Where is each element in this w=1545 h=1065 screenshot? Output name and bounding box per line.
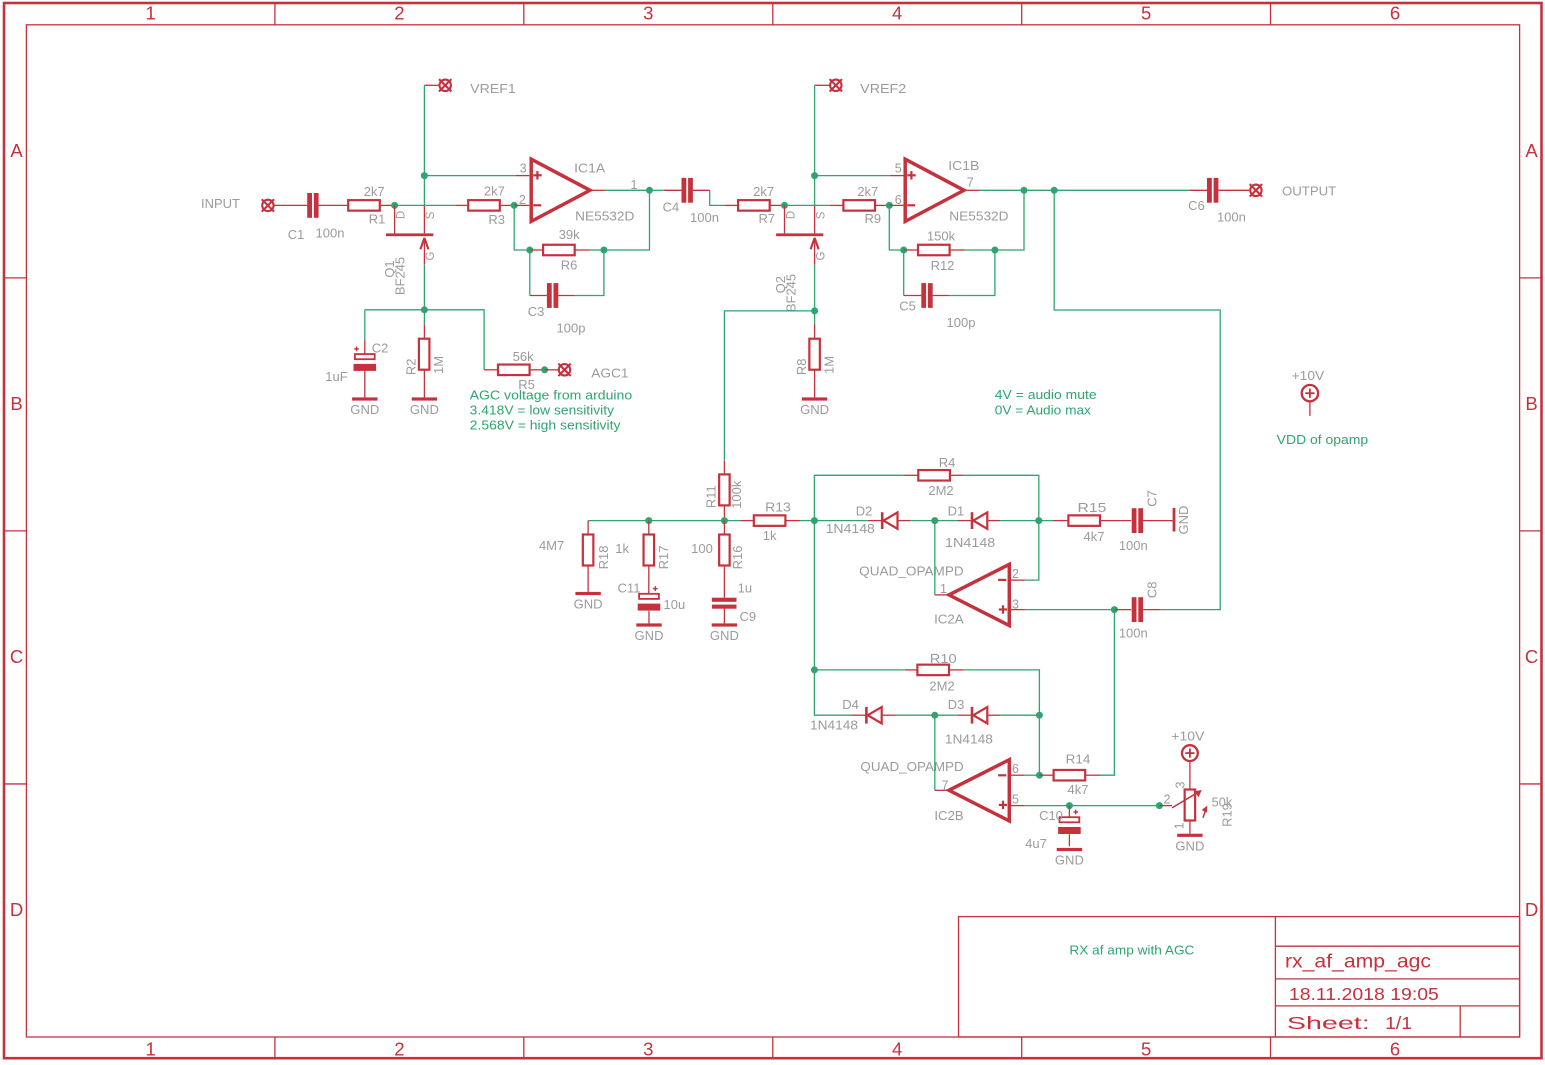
diode D4 1N4148 — [852, 714, 865, 716]
ground GND C10 — [1057, 848, 1082, 851]
svg-text:VDD of opamp: VDD of opamp — [1277, 432, 1369, 447]
wire down to R10 loop — [813, 521, 815, 670]
transistor Q1 BF245 — [386, 233, 433, 236]
svg-text:2: 2 — [1164, 793, 1171, 807]
svg-text:C10: C10 — [1039, 808, 1063, 823]
wire R19 pin1 to GND — [1189, 820, 1191, 833]
resistor R14 — [1039, 774, 1054, 776]
ground GND C11 — [636, 623, 661, 626]
svg-text:R9: R9 — [864, 211, 881, 226]
resistor R2 — [423, 310, 425, 325]
wire — [274, 204, 307, 206]
wire C3 loop right — [575, 250, 604, 296]
svg-text:GND: GND — [635, 628, 664, 643]
resistor R11 — [723, 461, 725, 475]
svg-text:VREF1: VREF1 — [470, 81, 516, 96]
svg-text:2k7: 2k7 — [484, 184, 505, 199]
svg-text:0V = Audio max: 0V = Audio max — [995, 403, 1092, 418]
frame row ticks left — [4, 277, 26, 279]
svg-text:INPUT: INPUT — [201, 196, 240, 211]
resistor R1 — [348, 200, 380, 211]
pin OUTPUT — [1250, 184, 1262, 196]
svg-text:2k7: 2k7 — [753, 184, 774, 199]
capacitor C1 — [307, 193, 312, 218]
svg-text:R15: R15 — [1078, 500, 1107, 515]
pin AGC1 — [558, 364, 570, 376]
svg-text:4M7: 4M7 — [539, 538, 564, 553]
wire — [395, 204, 456, 206]
svg-text:C4: C4 — [663, 200, 680, 215]
wire IC1A out to C4 — [650, 189, 665, 191]
svg-text:2M2: 2M2 — [929, 678, 954, 693]
svg-text:10u: 10u — [664, 597, 686, 612]
svg-text:D: D — [395, 211, 407, 219]
svg-text:C: C — [1525, 646, 1538, 667]
svg-text:R1: R1 — [369, 212, 386, 227]
capacitor C11 — [639, 594, 659, 599]
svg-text:GND: GND — [1175, 838, 1204, 853]
svg-text:7: 7 — [967, 175, 974, 189]
svg-text:4: 4 — [892, 1039, 902, 1060]
resistor R6 — [530, 249, 543, 251]
svg-text:S: S — [815, 211, 827, 219]
node IC1B out junction 2 — [1051, 187, 1058, 194]
svg-text:GND: GND — [800, 402, 829, 417]
svg-text:IC2B: IC2B — [934, 808, 963, 823]
pin INPUT — [262, 199, 274, 211]
node D1 right junction — [1035, 517, 1042, 524]
resistor R3 — [455, 204, 468, 206]
wire D2 row — [814, 520, 868, 522]
svg-text:D4: D4 — [842, 697, 859, 712]
svg-text:IC1A: IC1A — [574, 160, 605, 175]
svg-text:D: D — [1525, 899, 1538, 920]
ground GND R19 — [1177, 834, 1202, 837]
svg-text:+10V: +10V — [1171, 729, 1204, 744]
node IC1B out junction 1 — [1021, 187, 1028, 194]
wire Q2 gate node to R11 — [724, 311, 814, 461]
node Q1 gate node — [421, 306, 428, 313]
wire IC1B feedback — [995, 190, 1024, 250]
svg-text:39k: 39k — [559, 227, 580, 242]
svg-text:D: D — [10, 899, 23, 920]
wire VREF1 to Q1 source — [423, 176, 425, 206]
supply pin VREF1 — [439, 79, 451, 91]
wire — [785, 204, 830, 206]
svg-text:C9: C9 — [739, 609, 756, 624]
svg-text:R3: R3 — [488, 212, 505, 227]
node D2-D1 junction — [931, 517, 938, 524]
svg-text:3: 3 — [643, 1039, 653, 1060]
svg-text:1: 1 — [1173, 822, 1187, 829]
svg-text:D2: D2 — [856, 503, 873, 518]
svg-text:GND: GND — [410, 402, 439, 417]
svg-text:rx_af_amp_agc: rx_af_amp_agc — [1285, 952, 1431, 973]
svg-text:100p: 100p — [947, 315, 976, 330]
op-amp IC1A — [531, 159, 590, 221]
wire down to C2 — [364, 310, 366, 340]
svg-text:GND: GND — [1055, 853, 1084, 868]
svg-text:1N4148: 1N4148 — [945, 535, 995, 550]
svg-text:6: 6 — [1390, 1039, 1400, 1060]
wire Q1 gate down — [423, 265, 425, 310]
title block frame — [959, 917, 1520, 1037]
node pin6 junction — [886, 202, 893, 209]
svg-text:AGC voltage from arduino: AGC voltage from arduino — [470, 387, 633, 402]
svg-text:R7: R7 — [758, 211, 775, 226]
wire C5 loop left — [903, 250, 905, 296]
svg-text:C1: C1 — [288, 227, 305, 242]
svg-text:1/1: 1/1 — [1385, 1013, 1412, 1033]
svg-text:3: 3 — [1173, 781, 1187, 788]
resistor R10 — [814, 669, 905, 671]
svg-text:GND: GND — [1176, 506, 1191, 535]
resistor R12 — [904, 249, 919, 251]
svg-text:2k7: 2k7 — [857, 184, 878, 199]
svg-text:D3: D3 — [948, 697, 965, 712]
capacitor C4 — [664, 189, 682, 191]
svg-text:5: 5 — [1141, 3, 1151, 24]
svg-text:2: 2 — [1012, 567, 1019, 581]
svg-text:R11: R11 — [703, 485, 718, 508]
svg-text:2M2: 2M2 — [928, 483, 953, 498]
svg-text:100n: 100n — [1119, 538, 1148, 553]
node pin2 junction — [511, 202, 518, 209]
svg-text:1N4148: 1N4148 — [826, 521, 875, 536]
svg-text:56k: 56k — [513, 349, 534, 364]
svg-text:3.418V = low sensitivity: 3.418V = low sensitivity — [470, 402, 615, 417]
supply +10V R19 — [1182, 745, 1198, 761]
svg-text:2: 2 — [394, 3, 404, 24]
svg-text:1M: 1M — [821, 356, 836, 374]
node C8 left junction — [1111, 606, 1118, 613]
svg-text:RX af amp with AGC: RX af amp with AGC — [1069, 944, 1194, 958]
svg-text:1: 1 — [145, 3, 155, 24]
svg-text:100n: 100n — [316, 225, 345, 240]
svg-text:C5: C5 — [899, 299, 916, 314]
svg-text:R13: R13 — [765, 500, 791, 515]
svg-text:C: C — [10, 646, 23, 667]
node R13 right junction — [811, 517, 818, 524]
ground GND R18 — [575, 592, 600, 595]
ground GND C2 — [352, 397, 377, 400]
svg-text:B: B — [1525, 393, 1537, 414]
wire mid bus — [588, 520, 740, 522]
node R10 left junction — [811, 666, 818, 673]
svg-text:100: 100 — [691, 541, 713, 556]
ground GND C7 rotated — [1173, 508, 1176, 532]
resistor R15 — [1039, 520, 1053, 522]
capacitor C3 — [530, 295, 547, 297]
svg-text:4k7: 4k7 — [1068, 782, 1089, 797]
wire C8 node down to R14 — [1100, 610, 1114, 776]
svg-text:2: 2 — [519, 193, 526, 207]
svg-text:R19: R19 — [1220, 803, 1235, 827]
svg-text:GND: GND — [574, 597, 603, 612]
svg-text:5: 5 — [1012, 793, 1019, 807]
capacitor C8 — [1114, 609, 1131, 611]
svg-text:2: 2 — [394, 1039, 404, 1060]
svg-text:4u7: 4u7 — [1025, 836, 1047, 851]
svg-text:VREF2: VREF2 — [860, 81, 906, 96]
svg-text:2.568V = high sensitivity: 2.568V = high sensitivity — [470, 417, 621, 432]
svg-text:C8: C8 — [1145, 581, 1160, 598]
ground GND R8 — [802, 397, 827, 400]
wire VREF2 to Q2 source — [814, 176, 816, 206]
op-amp IC1B — [905, 159, 964, 221]
svg-text:6: 6 — [895, 193, 902, 207]
wire to IC1B pin5 — [815, 175, 890, 177]
svg-text:1u: 1u — [738, 581, 752, 596]
resistor R16 — [723, 521, 725, 535]
wire IC2B pin5 — [1010, 805, 1025, 807]
wire IC2B output up — [935, 789, 950, 791]
node VREF2 tee — [811, 172, 818, 179]
wire pin6 down — [889, 205, 903, 250]
svg-text:R10: R10 — [930, 651, 957, 666]
resistor R13 — [741, 520, 755, 522]
svg-text:C7: C7 — [1145, 490, 1160, 507]
svg-text:1k: 1k — [615, 541, 629, 556]
svg-text:6: 6 — [1012, 762, 1019, 776]
potentiometer R19 50k — [1159, 805, 1172, 807]
svg-text:6: 6 — [1390, 3, 1400, 24]
node Q2 gate node — [811, 307, 818, 314]
svg-text:C2: C2 — [372, 340, 389, 355]
wire Q1 gate node left — [365, 309, 425, 311]
svg-text:4k7: 4k7 — [1084, 529, 1105, 544]
capacitor C7 — [1132, 508, 1137, 533]
svg-text:1N4148: 1N4148 — [810, 718, 858, 733]
svg-text:A: A — [1525, 140, 1538, 161]
resistor R7 — [725, 204, 739, 206]
wire to IC1A pin3 — [424, 175, 515, 177]
svg-text:100k: 100k — [729, 480, 744, 509]
svg-text:C6: C6 — [1188, 198, 1205, 213]
svg-text:AGC1: AGC1 — [591, 366, 628, 381]
node R7-Q2 junction — [781, 202, 788, 209]
svg-text:100n: 100n — [1119, 625, 1148, 640]
diode D3 1N4148 — [935, 714, 958, 716]
svg-text:BF245: BF245 — [393, 257, 408, 295]
wire to R5 — [424, 310, 484, 370]
capacitor C10 — [1068, 806, 1070, 818]
wire C3 loop left — [529, 250, 531, 296]
node IC1A out junction — [646, 187, 653, 194]
svg-text:BF245: BF245 — [784, 274, 799, 312]
node D3 right junction — [1036, 712, 1043, 719]
svg-text:C3: C3 — [528, 304, 545, 319]
svg-text:D: D — [785, 211, 797, 219]
svg-text:100n: 100n — [1217, 209, 1246, 224]
wire output to C6 — [1054, 189, 1189, 191]
svg-text:1: 1 — [940, 582, 947, 596]
svg-text:A: A — [10, 140, 23, 161]
svg-text:18.11.2018 19:05: 18.11.2018 19:05 — [1289, 984, 1439, 1004]
svg-text:4: 4 — [892, 3, 902, 24]
svg-text:S: S — [425, 211, 437, 219]
svg-text:+10V: +10V — [1292, 368, 1325, 383]
node R19 wiper junction — [1156, 802, 1163, 809]
node D4-D3 junction — [931, 712, 938, 719]
wire — [1024, 189, 1054, 191]
capacitor C2 — [364, 340, 366, 354]
svg-text:3: 3 — [520, 161, 527, 175]
svg-text:4V = audio mute: 4V = audio mute — [995, 387, 1097, 402]
wire IC2A pin3 — [1010, 609, 1025, 611]
svg-text:R4: R4 — [939, 455, 956, 470]
svg-text:150k: 150k — [927, 229, 956, 244]
svg-text:NE5532D: NE5532D — [575, 208, 634, 223]
svg-text:1N4148: 1N4148 — [945, 732, 993, 747]
svg-text:R8: R8 — [794, 358, 809, 375]
supply pin VREF2 — [830, 79, 842, 91]
wire R4 right down to pin2 — [964, 475, 1039, 580]
svg-text:NE5532D: NE5532D — [949, 208, 1008, 223]
resistor R17 — [648, 521, 650, 535]
svg-text:IC2A: IC2A — [934, 611, 964, 626]
wire IC2B pin6 — [1010, 774, 1025, 776]
svg-text:D1: D1 — [948, 503, 965, 518]
node R17 top — [645, 517, 652, 524]
ground GND R2 — [412, 397, 437, 400]
frame row ticks right — [1520, 277, 1542, 279]
capacitor C9 — [712, 598, 737, 602]
node C10 junction — [1066, 802, 1073, 809]
svg-text:GND: GND — [350, 402, 379, 417]
node R12 left — [900, 247, 907, 254]
svg-text:IC1B: IC1B — [948, 158, 979, 173]
wire C5 loop right — [949, 250, 995, 296]
supply +10V right — [1302, 385, 1318, 401]
wire VREF1 down — [423, 85, 425, 175]
transistor Q2 BF245 — [776, 233, 823, 236]
resistor R8 — [814, 311, 816, 325]
svg-text:R16: R16 — [730, 545, 745, 569]
svg-text:QUAD_OPAMPD: QUAD_OPAMPD — [859, 563, 964, 578]
svg-text:3: 3 — [643, 3, 653, 24]
frame column ticks top — [274, 3, 276, 25]
svg-text:QUAD_OPAMPD: QUAD_OPAMPD — [860, 759, 963, 774]
svg-text:1uF: 1uF — [325, 369, 347, 384]
wire feedback down — [604, 190, 650, 250]
diode D1 1N4148 — [935, 520, 958, 522]
svg-text:100n: 100n — [690, 210, 719, 225]
node R1-D1 junction — [391, 202, 398, 209]
frame column ticks bottom — [274, 1037, 276, 1058]
svg-text:G: G — [425, 251, 437, 260]
wire IC1A output — [590, 189, 605, 191]
svg-text:R12: R12 — [931, 258, 955, 273]
svg-text:1: 1 — [145, 1039, 155, 1060]
wire R10 right down — [964, 670, 1040, 775]
svg-text:5: 5 — [895, 161, 902, 175]
node R12 right — [991, 247, 998, 254]
svg-text:C11: C11 — [618, 581, 641, 596]
op-amp IC2A — [949, 564, 1009, 625]
svg-text:R17: R17 — [656, 545, 671, 569]
svg-text:1M: 1M — [431, 356, 446, 374]
wire IC2A output up — [935, 594, 949, 596]
svg-text:B: B — [10, 393, 22, 414]
svg-text:G: G — [815, 251, 827, 260]
svg-text:OUTPUT: OUTPUT — [1282, 184, 1336, 199]
wire pin2 feedback — [514, 205, 530, 250]
svg-text:Sheet:: Sheet: — [1287, 1013, 1370, 1033]
node R6 right — [600, 247, 607, 254]
op-amp IC2B — [949, 760, 1009, 821]
wire C4 to R7 — [710, 190, 725, 205]
svg-text:100p: 100p — [557, 321, 586, 336]
diode D2 1N4148 — [868, 520, 881, 522]
svg-text:R6: R6 — [561, 258, 578, 273]
svg-text:GND: GND — [710, 628, 739, 643]
node R6 left — [526, 247, 533, 254]
ground GND C9 — [712, 623, 737, 626]
wire VREF2 down — [814, 85, 816, 175]
svg-text:5: 5 — [1141, 1039, 1151, 1060]
wire IC1B output — [964, 189, 979, 191]
svg-text:R18: R18 — [596, 545, 611, 569]
resistor R5 — [484, 369, 498, 371]
wire output bus long — [1054, 190, 1220, 609]
wire R4 loop — [814, 475, 904, 520]
node VREF1 tee — [421, 172, 428, 179]
svg-text:2k7: 2k7 — [364, 184, 385, 199]
svg-text:R2: R2 — [404, 358, 419, 375]
svg-text:1k: 1k — [763, 528, 777, 543]
node R5-AGC1 — [541, 366, 548, 373]
capacitor C5 — [904, 295, 922, 297]
node pin6-R14 junction — [1036, 772, 1043, 779]
wire D4 row — [814, 670, 852, 715]
wire Q2 gate down — [814, 265, 816, 311]
svg-text:R14: R14 — [1066, 751, 1091, 766]
capacitor C6 — [1189, 189, 1207, 191]
resistor R4 — [905, 474, 919, 476]
resistor R9 — [830, 204, 844, 206]
node R11 bottom — [721, 517, 728, 524]
resistor R18 — [587, 521, 589, 535]
